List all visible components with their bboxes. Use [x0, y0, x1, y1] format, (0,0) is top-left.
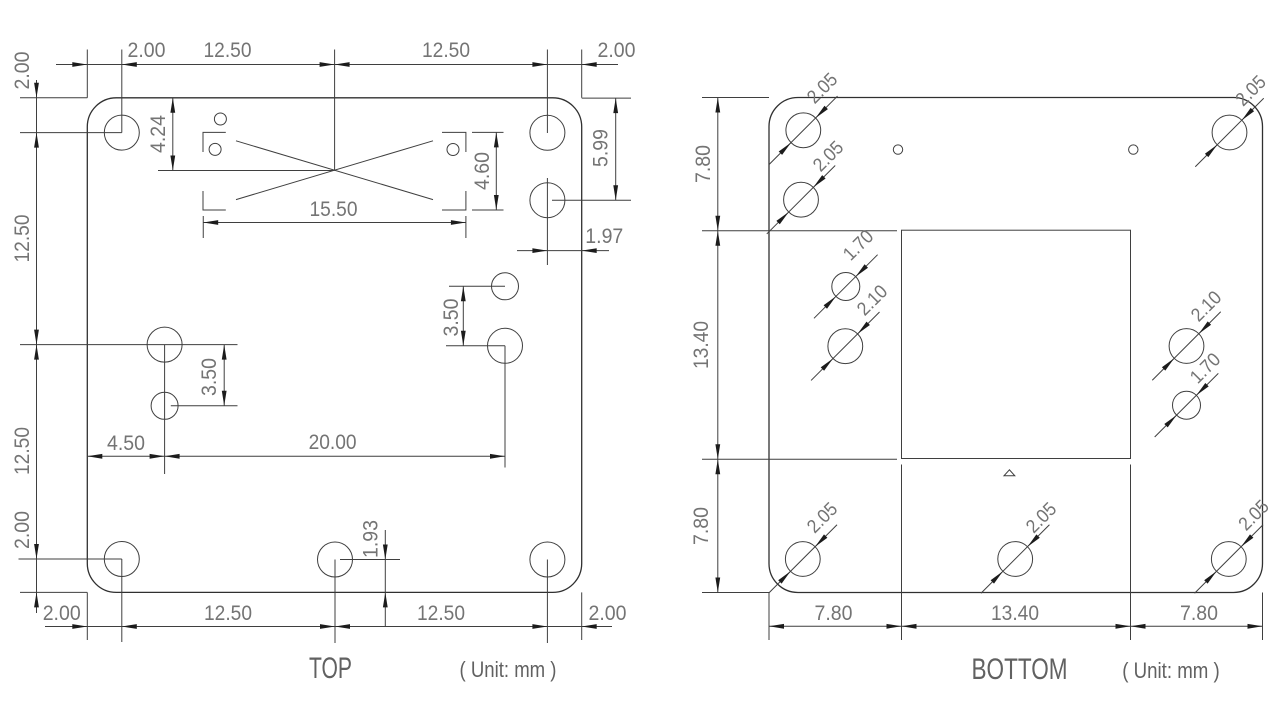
extension line 4.60 bottom (horizontal): [472, 209, 504, 211]
svg-text:3.50: 3.50: [197, 358, 221, 396]
board outline TOP view: [87, 98, 581, 593]
dim text 12.50 (bottom, first): [204, 601, 252, 625]
dimension line 15.50: [203, 222, 466, 224]
inner shield rectangle (BOTTOM view): [902, 230, 1131, 458]
diameter label 2.10 (rotated 45): [853, 281, 892, 320]
hole right small 1.70 (BOTTOM view): [1173, 391, 1201, 419]
board outline BOTTOM view: [769, 98, 1263, 593]
hole top-right (TOP view): [530, 115, 565, 150]
svg-text:20.00: 20.00: [309, 430, 357, 454]
bracket corner lower-left of shield area: [203, 191, 226, 210]
dimension line bottom chain: [45, 626, 612, 628]
region divider line lower-left (BOTTOM view): [702, 458, 897, 460]
dimension line 3.50 right (vertical): [462, 286, 464, 346]
dim text 4.60 (rotated): [470, 152, 494, 190]
leader line with arrows for 2.05 at (1228,559): [1195, 525, 1263, 593]
extension line board bottom edge (BOTTOM view left): [702, 592, 769, 594]
arrowheads 1.97 (outside): [532, 248, 596, 253]
bracket corner upper-left of shield area: [203, 132, 226, 152]
svg-text:( Unit: mm ): ( Unit: mm ): [1122, 658, 1220, 683]
label BOTTOM: [972, 653, 1068, 686]
dimension line 4.60 (vertical): [495, 132, 497, 210]
extension line bottom-right hole center (vertical): [546, 560, 548, 644]
svg-text:7.80: 7.80: [815, 601, 853, 625]
diameter label 2.05 (rotated 45): [1235, 496, 1274, 535]
svg-text:3.50: 3.50: [439, 298, 463, 336]
region divider vertical right (BOTTOM view): [1130, 465, 1132, 593]
diameter label 2.05 (rotated 45): [809, 137, 848, 176]
svg-text:4.24: 4.24: [146, 115, 170, 153]
extension line right small hole center (horizontal): [449, 285, 505, 287]
dim text 4.24 (rotated): [146, 115, 170, 153]
svg-text:12.50: 12.50: [10, 427, 34, 475]
extension line right-second hole center (horizontal): [552, 199, 631, 201]
region divider line upper-left (BOTTOM view): [702, 230, 897, 232]
hole bottom-middle (BOTTOM view): [998, 542, 1033, 577]
arrowheads 5.99: [613, 98, 618, 200]
label TOP: [309, 652, 352, 685]
extension line board top edge (left): [20, 97, 87, 99]
dim text 1.93 (rotated): [359, 520, 383, 558]
arrowheads 15.50: [203, 220, 466, 225]
hole bottom-left (BOTTOM view): [785, 542, 820, 577]
dimension line left chain (BOTTOM view): [717, 98, 719, 593]
dim text 4.50: [107, 431, 145, 455]
svg-text:15.50: 15.50: [310, 197, 358, 221]
svg-text:2.00: 2.00: [128, 38, 166, 62]
svg-text:12.50: 12.50: [10, 214, 34, 262]
dim text 7.80 (left top, rotated): [691, 145, 715, 183]
small circle inside left bracket: [209, 143, 221, 155]
hole right 2.10 (BOTTOM view): [1169, 329, 1204, 364]
dim text 5.99 (rotated): [589, 129, 613, 167]
diagonal cross line 2 (shield area): [236, 141, 433, 200]
dimension line 1.97: [517, 250, 609, 252]
dim text 13.40 (bottom middle): [991, 601, 1039, 625]
dim text 7.80 (bottom right): [1180, 601, 1218, 625]
arrowheads top dimension chain: [72, 62, 596, 67]
svg-text:2.00: 2.00: [43, 601, 81, 625]
extension line bottom-middle hole center (vertical): [334, 560, 336, 644]
svg-text:1.93: 1.93: [359, 520, 383, 558]
extension line board top edge (right overshoot): [582, 97, 631, 99]
svg-text:BOTTOM: BOTTOM: [972, 653, 1068, 686]
extension line right lower hole center (horizontal): [446, 345, 505, 347]
small circle left (BOTTOM view): [893, 145, 902, 154]
diameter label 2.05 (rotated 45): [803, 499, 842, 538]
extension line top-right hole center (vertical): [546, 50, 548, 134]
extension line bottom-left hole center (horizontal): [19, 558, 122, 560]
hole top-right (BOTTOM view): [1212, 115, 1247, 150]
hole mid-left 2.10 (BOTTOM view): [828, 329, 863, 364]
dimension line top chain: [56, 64, 618, 66]
dim text 2.00 (top right): [598, 38, 636, 62]
hole bottom-middle (TOP view): [318, 542, 353, 577]
hole mid-left small 1.70 (BOTTOM view): [832, 273, 860, 301]
svg-text:5.99: 5.99: [589, 129, 613, 167]
svg-text:2.00: 2.00: [589, 601, 627, 625]
dim text 3.50 left (rotated): [197, 358, 221, 396]
dim text 2.00 (left bottom, rotated): [10, 511, 34, 549]
dim text 7.80 (bottom left): [815, 601, 853, 625]
pin-1 triangle marker (BOTTOM view): [1004, 470, 1015, 476]
svg-text:12.50: 12.50: [422, 38, 470, 62]
hole bottom-right (BOTTOM view): [1211, 542, 1246, 577]
small circle right (BOTTOM view): [1129, 145, 1138, 154]
dimension line left chain: [36, 80, 38, 613]
dim text 13.40 (left middle, rotated): [689, 321, 713, 369]
extension line board right edge (BOTTOM view bottom): [1262, 593, 1264, 641]
svg-text:13.40: 13.40: [689, 321, 713, 369]
svg-text:7.80: 7.80: [1180, 601, 1218, 625]
label unit mm (left view): [460, 657, 557, 682]
extension line board left edge (BOTTOM view bottom): [768, 593, 770, 641]
hole top-left B (BOTTOM view): [784, 182, 819, 217]
dim text 12.50 (left lower, rotated): [10, 427, 34, 475]
dim text 12.50 (top, second): [422, 38, 470, 62]
dimension line 4.50 and 20.00: [87, 455, 505, 457]
dim text 2.00 (left top, rotated): [10, 51, 34, 89]
arrowheads 3.50 left: [222, 345, 227, 406]
dim text 12.50 (top, first): [204, 38, 252, 62]
extension line divider right (BOTTOM view bottom): [1130, 593, 1132, 641]
hole right upper-second (TOP view): [530, 183, 565, 218]
extension line right lower hole center (vertical, down): [504, 346, 506, 468]
arrowheads 4.24: [170, 98, 175, 171]
leader line with arrows for 2.05 at (802,559): [769, 525, 837, 593]
arrowheads 3.50 right: [461, 286, 466, 346]
dim text 2.00 (bottom right): [589, 601, 627, 625]
extension line 15.50 left (vertical): [202, 216, 204, 238]
extension line board left edge (bottom): [86, 592, 88, 640]
arrowheads bottom dimension chain: [72, 624, 596, 629]
dimension line bottom chain (BOTTOM view): [769, 625, 1263, 627]
extension line board centerline (vertical): [334, 50, 336, 171]
svg-text:2.00: 2.00: [598, 38, 636, 62]
extension line mid-left small hole center (horizontal): [171, 405, 238, 407]
hole right lower (TOP view): [488, 328, 523, 363]
arrowheads 1.93 (outside): [383, 545, 388, 608]
svg-text:2.00: 2.00: [10, 511, 34, 549]
svg-text:12.50: 12.50: [417, 601, 465, 625]
extension line board top edge (BOTTOM view left): [702, 97, 769, 99]
hole bottom-left (TOP view): [104, 542, 139, 577]
extension line top-left hole center (vertical): [121, 50, 123, 133]
dim text 12.50 (bottom, second): [417, 601, 465, 625]
svg-text:2.00: 2.00: [10, 51, 34, 89]
leader line with arrows for 2.05 at (1015,559): [981, 525, 1049, 593]
extension line 4.24 bottom (horizontal through X crossing): [158, 170, 335, 172]
leader line with arrows for 2.10 at (1186,346): [1152, 312, 1220, 380]
dimension line 4.24 (vertical): [172, 98, 174, 171]
dim text 7.80 (left bottom, rotated): [689, 507, 713, 545]
hole top-left A (BOTTOM view): [786, 113, 821, 148]
svg-text:1.97: 1.97: [585, 224, 623, 248]
dim text 2.00 (bottom left): [43, 601, 81, 625]
extension line bottom-middle hole center (horizontal): [340, 559, 400, 561]
leader line with arrows for 2.05 at (801,199): [767, 165, 835, 233]
bracket corner upper-right of shield area: [442, 132, 466, 152]
hole top-left (TOP view): [104, 115, 139, 150]
arrowheads left dimension chain (BOTTOM view): [715, 98, 720, 593]
hole mid-left small (TOP view): [151, 392, 178, 419]
svg-text:13.40: 13.40: [991, 601, 1039, 625]
region divider vertical left (BOTTOM view): [901, 465, 903, 593]
dim text 3.50 right (rotated): [439, 298, 463, 336]
bracket corner lower-right of shield area: [442, 191, 466, 210]
svg-text:7.80: 7.80: [691, 145, 715, 183]
svg-text:TOP: TOP: [309, 652, 352, 685]
hole mid-left (TOP view): [147, 327, 182, 362]
dim text 12.50 (left upper, rotated): [10, 214, 34, 262]
arrowheads 4.60: [494, 132, 499, 210]
svg-text:12.50: 12.50: [204, 38, 252, 62]
extension line board right edge (bottom): [581, 592, 583, 640]
dimension line 5.99 (vertical): [615, 98, 617, 200]
extension line right-second hole center (vertical, down): [546, 178, 548, 265]
dimension line 1.93 (vertical): [384, 530, 386, 626]
diagonal cross line 1 (shield area): [236, 141, 433, 200]
extension line divider left (BOTTOM view bottom): [901, 593, 903, 641]
leader line with arrows for 2.10 at (845,346): [811, 312, 879, 380]
leader line with arrows for 2.05 at (1229,132): [1195, 98, 1263, 166]
svg-text:12.50: 12.50: [204, 601, 252, 625]
extension line board right edge (top): [581, 50, 583, 98]
dimension line 3.50 left (vertical): [223, 345, 225, 406]
dim text 1.97: [585, 224, 623, 248]
leader line with arrows for 2.05 at (803,130): [769, 96, 837, 164]
small circle above left bracket: [214, 113, 226, 125]
extension line mid-left hole center (horizontal): [20, 344, 238, 346]
dim text 2.00 (top left): [128, 38, 166, 62]
label unit mm (right view): [1122, 658, 1220, 683]
extension line board bottom edge (left): [20, 591, 87, 593]
hole bottom-right (TOP view): [530, 542, 565, 577]
extension line 4.60 top (horizontal): [472, 131, 504, 133]
extension line bottom-left hole center (vertical): [121, 559, 123, 642]
extension line board left edge (top): [86, 50, 88, 98]
arrowheads 4.50 and 20.00: [87, 454, 505, 459]
arrowheads bottom dimension chain (BOTTOM view): [769, 624, 1263, 629]
dim text 20.00: [309, 430, 357, 454]
diameter label 2.05 (rotated 45): [803, 69, 842, 108]
svg-text:( Unit: mm ): ( Unit: mm ): [460, 657, 557, 682]
extension line top-left hole center (horizontal): [20, 132, 122, 134]
svg-text:4.50: 4.50: [107, 431, 145, 455]
svg-text:7.80: 7.80: [689, 507, 713, 545]
small circle inside right bracket: [447, 144, 459, 156]
diameter label 2.10 (rotated 45): [1187, 287, 1226, 326]
diameter label 1.70 (rotated 45): [839, 226, 878, 265]
svg-text:4.60: 4.60: [470, 152, 494, 190]
leader line with arrows for 1.70 at (1186,405): [1155, 373, 1219, 437]
dim text 15.50: [310, 197, 358, 221]
diameter label 2.05 (rotated 45): [1232, 72, 1271, 111]
hole right small (TOP view): [492, 273, 519, 300]
extension line mid-left hole center (vertical, down): [164, 345, 166, 474]
arrowheads left dimension chain: [34, 83, 39, 608]
diameter label 2.05 (rotated 45): [1022, 499, 1061, 538]
extension line 15.50 right (vertical): [465, 216, 467, 238]
diameter label 1.70 (rotated 45): [1186, 349, 1225, 388]
leader line with arrows for 1.70 at (845,286): [814, 255, 878, 319]
